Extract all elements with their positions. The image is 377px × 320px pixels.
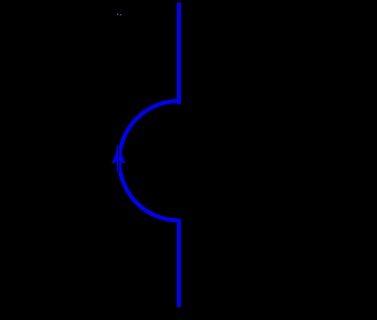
wire: left semicircular indentation arc	[119, 101, 179, 220]
wire: bottom vertical segment of contour	[177, 219, 181, 307]
node A: arrowhead on arc pointing up	[112, 146, 126, 164]
wire: thin blue arrow shaft line	[117, 146, 119, 172]
faint dots top-left	[117, 14, 122, 16]
wire: thin black seam between arrow shaft and arc	[118, 146, 120, 172]
wire: top vertical segment of contour	[177, 3, 181, 105]
